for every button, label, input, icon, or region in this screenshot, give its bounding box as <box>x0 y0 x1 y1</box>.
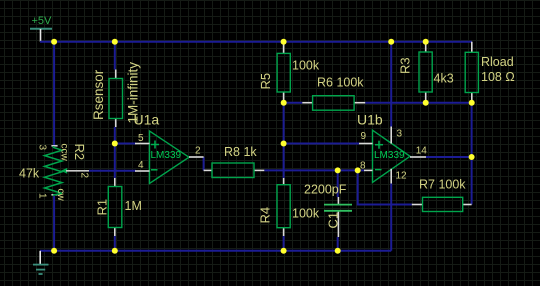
wire +5V rail down to U1b pin3 <box>390 42 392 127</box>
wire Rsensor top <box>114 42 116 70</box>
wire pin5 node to U1a pin5 <box>115 143 136 145</box>
node top rail R3 junction <box>423 39 429 45</box>
wire U1b output to feedback node <box>426 156 472 158</box>
wire U1a output down to R8 row <box>203 157 205 170</box>
svg-text:12: 12 <box>396 171 408 182</box>
svg-text:2200pF: 2200pF <box>304 182 347 196</box>
resistor R3 4k3 <box>398 42 454 103</box>
wire pot bottom down to ground rail <box>53 196 55 251</box>
svg-text:4: 4 <box>138 160 144 171</box>
svg-text:R7 100k: R7 100k <box>419 178 466 192</box>
wire R4 bottom to ground rail <box>283 236 285 251</box>
wire R6 right to R3 bottom to Rload bottom <box>365 102 472 104</box>
svg-text:R2: R2 <box>72 144 87 161</box>
wire R1 bottom to ground rail <box>114 236 116 251</box>
wire R8 right to U1b pin8 <box>264 169 364 171</box>
wire pin9 node to U1b pin9 <box>284 143 359 145</box>
svg-text:1M: 1M <box>125 199 142 213</box>
capacitor C1 2200pF <box>304 182 352 237</box>
wire R5 bottom down to pin9 node <box>283 103 285 144</box>
svg-text:Rload: Rload <box>481 55 514 69</box>
pin 12 <box>390 169 392 184</box>
wire pot wiper to U1a pin4 <box>89 170 136 172</box>
resistor R5 100k <box>258 42 320 103</box>
svg-text:U1a: U1a <box>134 112 160 128</box>
resistor Rsensor <box>91 62 141 127</box>
wire R5 bottom junction to R6 left <box>284 102 303 104</box>
svg-text:R3: R3 <box>398 57 413 74</box>
svg-text:5: 5 <box>138 133 144 144</box>
wire U1b pin12 down to ground rail <box>390 184 392 251</box>
svg-text:ccw: ccw <box>59 144 70 162</box>
node ground rail R1 junction <box>112 248 118 254</box>
svg-text:100k: 100k <box>292 207 320 221</box>
svg-text:Rsensor: Rsensor <box>91 69 106 120</box>
resistor R1 1M <box>95 178 142 236</box>
pin 3 <box>390 127 392 144</box>
svg-text:8: 8 <box>360 161 366 172</box>
svg-text:+5V: +5V <box>32 15 53 27</box>
node top rail R5 junction <box>281 39 287 45</box>
svg-text:2: 2 <box>79 173 90 179</box>
wire C1 bottom to ground rail <box>337 237 339 251</box>
pin 9 <box>359 143 373 145</box>
wire R7 branch node down and over to R7 left <box>358 170 412 204</box>
svg-text:R1: R1 <box>95 199 110 216</box>
svg-text:LM339: LM339 <box>374 150 405 161</box>
potentiometer R2 47k <box>19 144 90 202</box>
svg-text:47k: 47k <box>19 167 40 181</box>
resistor R6 100k <box>302 76 365 111</box>
pin 5 <box>135 143 150 145</box>
node output junction <box>469 154 475 160</box>
node top rail left junction <box>51 39 57 45</box>
node top rail Rsensor junction <box>112 39 118 45</box>
wire R1 top stub <box>114 171 116 178</box>
svg-text:2: 2 <box>195 146 201 157</box>
svg-text:1: 1 <box>37 193 48 199</box>
node top rail pin3 junction <box>388 39 394 45</box>
svg-text:3: 3 <box>37 145 48 151</box>
node pin9 junction <box>281 141 287 147</box>
svg-text:9: 9 <box>361 131 367 142</box>
pin 4 <box>135 170 150 172</box>
resistor R4 100k <box>258 178 320 236</box>
node R7 branch junction <box>355 167 361 173</box>
ground <box>33 251 49 274</box>
wire Rload bottom down to output node <box>471 103 473 157</box>
svg-text:U1b: U1b <box>357 112 383 128</box>
wire pin9 node down to R4 top <box>283 144 285 179</box>
svg-text:R5: R5 <box>258 73 273 90</box>
resistor Rload 108 ohm <box>465 42 514 103</box>
svg-text:14: 14 <box>416 146 428 157</box>
svg-text:R6 100k: R6 100k <box>317 76 364 90</box>
resistor R8 1k <box>204 145 265 178</box>
svg-text:3: 3 <box>397 129 403 140</box>
wire pin5 node down to wiper row <box>114 144 116 172</box>
svg-text:LM339: LM339 <box>151 150 182 161</box>
svg-text:100k: 100k <box>292 59 320 73</box>
resistor R7 100k <box>412 178 472 212</box>
wire C1 node down to C1 top <box>337 170 339 197</box>
node C1 top junction <box>335 167 341 173</box>
wire top +5V rail <box>40 41 472 43</box>
svg-text:4k3: 4k3 <box>434 72 454 86</box>
node ground rail pot junction <box>51 248 57 254</box>
wire output node down to R7 right <box>471 157 473 205</box>
pin 2 <box>189 156 204 158</box>
wire Rsensor bottom to pin5 node <box>114 127 116 144</box>
svg-text:C1: C1 <box>326 212 341 229</box>
node pin5 junction <box>112 141 118 147</box>
node R5 bottom junction <box>281 100 287 106</box>
node R3 bottom junction <box>423 100 429 106</box>
node ground rail R4 junction <box>281 248 287 254</box>
node ground rail C1 junction <box>335 248 341 254</box>
power symbol +5V <box>30 15 52 42</box>
svg-text:R8 1k: R8 1k <box>224 145 257 159</box>
pin 14 <box>410 156 426 158</box>
wire ground rail <box>40 250 391 252</box>
node Rload bottom junction <box>469 100 475 106</box>
svg-text:108 Ω: 108 Ω <box>481 70 515 84</box>
wire left rail down to pot top <box>53 42 55 146</box>
svg-text:cw: cw <box>55 189 66 202</box>
op-amp U1a LM339 <box>134 112 204 184</box>
svg-text:R4: R4 <box>258 207 273 224</box>
pin 8 <box>364 169 373 171</box>
op-amp U1b LM339 <box>357 112 427 184</box>
